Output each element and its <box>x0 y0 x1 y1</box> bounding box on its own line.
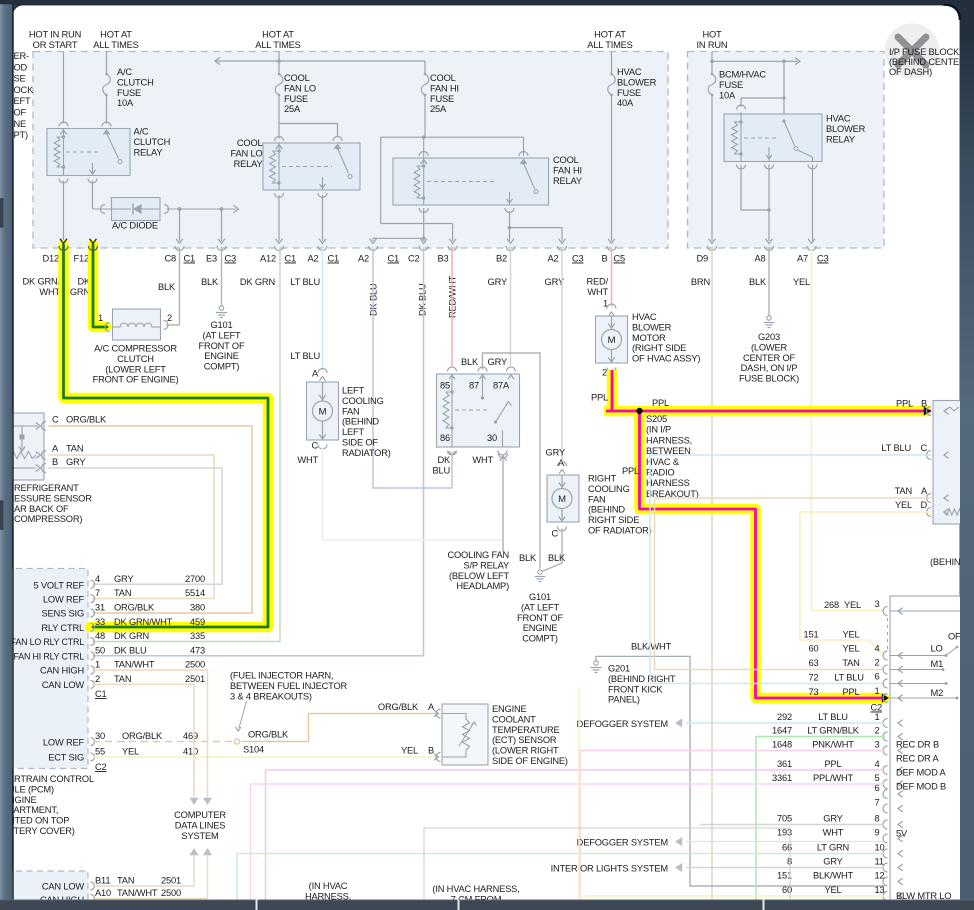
wire B2 GRY to S/P relay 87A <box>510 248 512 366</box>
op HVAC BLOWER RELAY <box>724 114 822 162</box>
svg-text:REC DR A: REC DR A <box>896 754 939 764</box>
svg-text:GRY: GRY <box>823 857 842 867</box>
svg-text:YEL: YEL <box>844 600 861 610</box>
wire lo relay coil to A12 <box>278 195 280 241</box>
svg-text:LT BLU: LT BLU <box>290 277 320 287</box>
ground G201 <box>594 661 598 665</box>
svg-text:REC DR B: REC DR B <box>896 740 939 750</box>
wire data lines to PCM B11 <box>190 848 199 855</box>
PCM dashed box upper <box>0 569 88 769</box>
wire PCM 30 ORG/BLK dashed to S104 <box>93 741 232 743</box>
svg-text:TAN/WHT: TAN/WHT <box>117 888 158 898</box>
svg-text:LT BLU: LT BLU <box>290 351 320 361</box>
node S205 splice <box>636 408 642 414</box>
svg-text:DEFOGGER SYSTEM: DEFOGGER SYSTEM <box>577 838 668 848</box>
wire module C LT BLU to pin 6 <box>650 455 931 684</box>
svg-text:M2: M2 <box>931 688 944 698</box>
svg-text:86: 86 <box>440 433 450 443</box>
svg-text:YEL: YEL <box>895 500 912 510</box>
wire highlighted PPL blower motor to S205 rail <box>607 370 618 411</box>
svg-text:2500: 2500 <box>185 660 205 670</box>
svg-text:LOW REF: LOW REF <box>43 738 85 748</box>
wire A7 YEL to connector pin 3 <box>812 248 885 611</box>
svg-text:ORG/BLK: ORG/BLK <box>248 730 289 740</box>
wire PCM 55 YEL to ECT B <box>93 756 436 758</box>
wire left fan WHT to splice <box>323 447 504 540</box>
svg-text:SENS SIG: SENS SIG <box>42 609 84 619</box>
svg-text:PPL/WHT: PPL/WHT <box>813 773 854 783</box>
svg-text:TAN: TAN <box>66 444 83 454</box>
svg-text:BLK: BLK <box>461 357 479 367</box>
svg-text:2: 2 <box>167 313 172 323</box>
svg-text:LT BLU: LT BLU <box>881 443 911 453</box>
svg-text:60: 60 <box>809 644 819 654</box>
svg-text:GRY: GRY <box>546 448 565 458</box>
svg-text:DK: DK <box>437 455 451 465</box>
svg-text:1: 1 <box>875 712 880 722</box>
svg-text:WHT: WHT <box>823 828 844 838</box>
wire HOT IN RUN OR START feed <box>63 52 65 124</box>
svg-text:B: B <box>428 746 434 756</box>
wire C2 DK BLU to PCM pin 50 <box>93 248 424 656</box>
svg-text:2: 2 <box>602 368 607 378</box>
wire blower fuse to B C5 <box>611 95 613 241</box>
wire relay common to A8 <box>768 165 770 242</box>
pointer fuel injector harness to S104 <box>239 701 247 728</box>
svg-text:RLY CTRL: RLY CTRL <box>41 623 84 633</box>
svg-text:TAN: TAN <box>842 658 859 668</box>
svg-text:C2: C2 <box>95 762 107 772</box>
svg-text:5: 5 <box>875 773 880 783</box>
wire pin11 GRY interior lights <box>686 867 884 869</box>
svg-text:C8: C8 <box>164 254 176 264</box>
right frame bar <box>960 2 974 910</box>
wire fuse to hi relay rail <box>424 95 426 137</box>
svg-text:2501: 2501 <box>185 674 205 684</box>
svg-text:DK GRN: DK GRN <box>114 631 149 641</box>
wire pin13 YEL <box>579 688 884 896</box>
frame overlay left bar <box>0 2 12 910</box>
wire fuse to cool fan lo relay <box>278 95 280 139</box>
svg-text:C3: C3 <box>572 254 584 264</box>
wire pin10 LT GRN <box>237 854 884 900</box>
svg-text:A2: A2 <box>307 254 318 264</box>
svg-text:WHT: WHT <box>297 455 318 465</box>
svg-text:D9: D9 <box>696 254 708 264</box>
wire compressor clutch pin2 to C8 BLK <box>164 321 169 330</box>
wire 87 BLK to G101 left <box>483 353 541 568</box>
wire relay switch to diode <box>92 181 94 210</box>
PCM connector C2 pins <box>91 738 95 746</box>
relay coil A/C clutch <box>63 129 65 176</box>
svg-text:BLK/WHT: BLK/WHT <box>813 871 854 881</box>
svg-text:BLK: BLK <box>519 553 537 563</box>
op COOL FAN LO RELAY <box>263 143 360 190</box>
svg-text:151: 151 <box>804 630 819 640</box>
svg-text:ORG/BLK: ORG/BLK <box>66 415 107 425</box>
relay switch cool fan hi <box>522 161 525 164</box>
frame notch lower <box>0 500 4 530</box>
op REFRIGERANT PRESSURE SENSOR <box>0 413 44 480</box>
box harness region <box>423 828 425 899</box>
svg-text:3: 3 <box>875 599 880 609</box>
svg-text:YEL: YEL <box>122 747 139 757</box>
svg-text:2: 2 <box>875 658 880 668</box>
svg-text:YEL: YEL <box>793 277 810 287</box>
svg-text:RED/WHT: RED/WHT <box>587 277 609 297</box>
wire A2 LT BLU to left cooling fan <box>322 248 324 371</box>
svg-text:E3: E3 <box>206 254 217 264</box>
wire relay contact to A7 <box>812 165 814 242</box>
svg-text:5514: 5514 <box>185 588 205 598</box>
wire pin1 LT BLU defogger <box>686 722 884 724</box>
svg-text:1: 1 <box>98 313 103 323</box>
op A/C COMPRESSOR CLUTCH <box>105 323 110 332</box>
svg-text:4: 4 <box>875 759 880 769</box>
wire junction to E3 <box>221 209 223 241</box>
op HVAC control module upper right <box>933 401 973 525</box>
svg-text:M: M <box>319 407 327 418</box>
svg-text:2501: 2501 <box>161 876 181 886</box>
wire highlighted DK GRN/WHT D12 to PCM pin 33 <box>64 245 269 627</box>
PCM lower connector pins <box>91 882 95 890</box>
svg-text:72: 72 <box>809 673 819 683</box>
svg-text:LO: LO <box>931 644 943 654</box>
svg-text:TAN: TAN <box>895 486 912 496</box>
svg-text:GRY: GRY <box>66 457 85 467</box>
svg-text:33: 33 <box>95 617 105 627</box>
svg-text:ORG/BLK: ORG/BLK <box>114 603 155 613</box>
frame notch upper <box>0 198 4 228</box>
diode A/C DIODE <box>101 205 106 214</box>
svg-text:M: M <box>608 335 616 346</box>
svg-text:12: 12 <box>875 871 885 881</box>
wire HOT AT ALL TIMES to A/C clutch fuse <box>106 52 108 74</box>
svg-text:5 VOLT REF: 5 VOLT REF <box>33 581 84 591</box>
svg-text:TAN: TAN <box>117 876 134 886</box>
svg-text:361: 361 <box>777 759 792 769</box>
svg-text:DK BLU: DK BLU <box>114 645 147 655</box>
svg-text:B2: B2 <box>496 254 507 264</box>
svg-text:C3: C3 <box>817 254 829 264</box>
fuse A/C CLUTCH FUSE 10A <box>103 74 111 95</box>
wire D9 BRN down <box>711 248 713 899</box>
svg-text:HOT IN RUNOR START: HOT IN RUNOR START <box>29 30 81 50</box>
svg-text:48: 48 <box>95 631 105 641</box>
wire fuse to A/C clutch relay <box>106 95 108 124</box>
svg-text:S104: S104 <box>243 745 264 755</box>
relay switch S/P <box>482 374 484 397</box>
fuse HVAC BLOWER FUSE 40A <box>608 74 616 95</box>
unfused branch rail <box>712 60 784 62</box>
svg-text:D: D <box>920 500 927 510</box>
svg-text:C: C <box>920 443 927 453</box>
svg-text:FAN HI RLY CTRL: FAN HI RLY CTRL <box>14 652 85 662</box>
op COOLING FAN S/P RELAY <box>437 374 520 447</box>
I/P fuse block dashed box <box>688 52 885 249</box>
svg-text:A10: A10 <box>95 888 111 898</box>
svg-text:1: 1 <box>95 660 100 670</box>
svg-text:A8: A8 <box>754 254 765 264</box>
svg-text:DEF MOD B: DEF MOD B <box>896 782 946 792</box>
svg-text:ORG/BLK: ORG/BLK <box>122 731 163 741</box>
wire A8 BLK to G203 <box>768 248 770 316</box>
svg-text:268: 268 <box>824 600 839 610</box>
wire pin9 WHT defogger <box>686 841 884 843</box>
svg-text:GRY: GRY <box>823 814 842 824</box>
wire pin2 LT GRN/BLK <box>756 737 884 900</box>
wire B C5 RED/WHT to blower motor <box>611 248 613 307</box>
svg-text:A2: A2 <box>358 254 369 264</box>
svg-text:GRY: GRY <box>114 574 133 584</box>
svg-text:COOLFAN HIRELAY: COOLFAN HIRELAY <box>553 155 582 186</box>
svg-text:C: C <box>52 415 59 425</box>
node S104 splice <box>234 739 239 744</box>
svg-text:30: 30 <box>95 731 105 741</box>
wire hi switch to B2 and A2C3 <box>509 211 511 241</box>
frame overlay top strip <box>0 0 974 4</box>
svg-text:C1: C1 <box>184 254 196 264</box>
wire rail to cool fan hi fuse <box>424 61 426 74</box>
relay coil cool fan lo <box>278 143 280 190</box>
svg-text:B3: B3 <box>437 254 448 264</box>
svg-text:(IN HVACHARNESS,: (IN HVACHARNESS, <box>305 881 351 901</box>
wire HOT AT ALL TIMES rail <box>278 52 280 74</box>
svg-text:LT BLU: LT BLU <box>834 673 864 683</box>
svg-text:8: 8 <box>875 814 880 824</box>
op blower switch module lower right <box>890 596 974 906</box>
svg-text:3: 3 <box>875 740 880 750</box>
relay switch A/C clutch <box>105 131 108 134</box>
node diode-E3 junction <box>220 207 224 211</box>
svg-text:87: 87 <box>469 381 479 391</box>
svg-text:5V: 5V <box>896 829 908 839</box>
svg-text:BLK/WHT: BLK/WHT <box>631 642 672 652</box>
svg-text:LT BLU: LT BLU <box>818 712 848 722</box>
wire HOT IN RUN feed <box>711 52 713 74</box>
fuse BCM/HVAC FUSE 10A <box>708 74 716 95</box>
svg-text:CAN LOW: CAN LOW <box>42 882 85 892</box>
svg-text:YEL: YEL <box>824 885 841 895</box>
svg-text:C: C <box>551 529 558 539</box>
wire hi relay feed rails <box>381 136 524 138</box>
ground G203 <box>767 316 771 320</box>
wire PCM 1 TAN/WHT to data lines <box>93 670 208 797</box>
ground G101 radiator <box>538 570 542 574</box>
op ECT SENSOR <box>442 704 488 765</box>
svg-text:7: 7 <box>875 798 880 808</box>
svg-text:C2: C2 <box>870 703 882 713</box>
close button <box>885 24 940 79</box>
svg-text:A: A <box>312 369 319 379</box>
relay coil cool fan hi <box>423 137 425 205</box>
svg-text:C5: C5 <box>614 254 626 264</box>
svg-text:ORG/BLK: ORG/BLK <box>378 702 419 712</box>
wire rail to hi relay switch <box>523 137 525 156</box>
svg-text:M1: M1 <box>931 659 944 669</box>
PCM connector C1 pins <box>91 580 95 588</box>
svg-text:FAN LO RLY CTRL: FAN LO RLY CTRL <box>11 637 85 647</box>
wire rail to B3 <box>452 224 454 242</box>
svg-text:1647: 1647 <box>772 726 792 736</box>
svg-text:LT GRN: LT GRN <box>817 843 849 853</box>
svg-text:4: 4 <box>875 644 880 654</box>
svg-text:292: 292 <box>777 712 792 722</box>
svg-text:PNK/WHT: PNK/WHT <box>812 740 854 750</box>
svg-text:3361: 3361 <box>772 773 792 783</box>
wire highlighted DK GRN F12 to compressor clutch <box>93 245 106 327</box>
svg-text:1648: 1648 <box>772 740 792 750</box>
svg-text:BLK: BLK <box>158 282 176 292</box>
svg-text:F12: F12 <box>74 254 89 264</box>
svg-text:YEL: YEL <box>401 746 418 756</box>
svg-text:2700: 2700 <box>185 574 205 584</box>
svg-text:A: A <box>52 444 59 454</box>
svg-text:10: 10 <box>875 843 885 853</box>
fuse COOL FAN HI FUSE 25A <box>421 74 429 95</box>
wire pin5 PPL/WHT <box>251 784 885 899</box>
underhood fuse block dashed box <box>33 52 668 249</box>
svg-text:11: 11 <box>875 857 884 867</box>
svg-text:TAN: TAN <box>114 674 131 684</box>
svg-text:335: 335 <box>190 631 205 641</box>
wire B3 RED/WHT to S/P relay 85 <box>451 248 453 366</box>
wire pin8 GRY <box>700 824 884 826</box>
bottom tab bar <box>0 900 974 910</box>
wire relay coil low to A8 rail <box>740 165 742 211</box>
svg-text:TAN: TAN <box>114 588 131 598</box>
relay coil HVAC blower <box>740 114 742 162</box>
svg-text:7: 7 <box>95 588 100 598</box>
svg-text:A/C COMPRESSORCLUTCH(LOWER LEF: A/C COMPRESSORCLUTCH(LOWER LEFTFRONT OF … <box>93 344 179 385</box>
relay switch HVAC blower <box>782 119 785 122</box>
svg-text:B: B <box>52 457 58 467</box>
svg-text:63: 63 <box>809 658 819 668</box>
svg-text:PPL: PPL <box>824 759 841 769</box>
svg-text:6: 6 <box>875 672 880 682</box>
wire PCM 2 TAN to data lines <box>93 684 194 797</box>
wire pin3 PNK/WHT <box>580 751 884 900</box>
svg-text:473: 473 <box>190 645 205 655</box>
svg-text:BLU: BLU <box>432 466 450 476</box>
svg-text:C3: C3 <box>225 254 237 264</box>
svg-text:50: 50 <box>95 645 105 655</box>
svg-text:BRN: BRN <box>691 277 710 287</box>
svg-text:BLK: BLK <box>749 277 767 287</box>
svg-text:DK BLU: DK BLU <box>418 283 428 316</box>
svg-text:INTERIOR LIGHTS SYSTEM: INTERIOR LIGHTS SYSTEM <box>551 864 668 874</box>
svg-text:1: 1 <box>875 686 880 696</box>
wire data lines to PCM A10 <box>203 848 212 855</box>
op HVAC BLOWER MOTOR <box>607 304 616 309</box>
svg-text:A12: A12 <box>260 254 276 264</box>
svg-text:410: 410 <box>183 747 198 757</box>
svg-text:A2: A2 <box>547 254 558 264</box>
svg-text:9: 9 <box>875 828 880 838</box>
relay switch cool fan lo <box>336 146 339 149</box>
svg-text:DK GRN/WHT: DK GRN/WHT <box>114 617 173 627</box>
svg-text:C1: C1 <box>95 689 107 699</box>
svg-text:YEL: YEL <box>842 630 859 640</box>
svg-text:4: 4 <box>95 574 100 584</box>
svg-text:PPL: PPL <box>652 398 669 408</box>
svg-text:DEF MOD A: DEF MOD A <box>896 768 946 778</box>
fuse COOL FAN LO FUSE 25A <box>275 74 283 95</box>
svg-text:85: 85 <box>440 381 450 391</box>
frame overlay top-right corner wedge <box>942 0 974 40</box>
frame overlay right bar <box>960 0 974 910</box>
wire A2 C3 GRY to right cooling fan <box>561 248 563 464</box>
svg-text:D12: D12 <box>42 254 59 264</box>
connector C2 lower pins <box>883 719 888 728</box>
wire sensor B GRY to PCM 4 <box>49 468 222 584</box>
svg-text:B: B <box>601 254 607 264</box>
wire BCM fuse to D9 <box>711 95 713 241</box>
svg-text:C1: C1 <box>328 254 340 264</box>
svg-text:A7: A7 <box>797 254 808 264</box>
wire right fan BLK to G101 <box>543 529 562 571</box>
wire module D YEL to pin 4 <box>800 512 931 656</box>
wire S104 ORG/BLK to ECT A <box>242 714 437 742</box>
wire diode output <box>167 208 236 210</box>
svg-text:C1: C1 <box>285 254 297 264</box>
wire pin4 PPL <box>266 770 885 899</box>
svg-text:380: 380 <box>190 603 205 613</box>
svg-text:M: M <box>558 494 566 505</box>
svg-text:A: A <box>921 486 928 496</box>
svg-text:13: 13 <box>875 885 885 895</box>
wire E3 BLK to G101 <box>221 248 223 306</box>
svg-text:PPL: PPL <box>896 399 913 409</box>
op COOL FAN HI RELAY <box>393 158 549 205</box>
wire BLK/WHT G201 to pin 12 <box>596 656 884 886</box>
svg-text:73: 73 <box>809 687 819 697</box>
svg-text:DK GRN: DK GRN <box>240 277 275 287</box>
wire HOT AT ALL TIMES to HVAC blower fuse <box>611 52 613 74</box>
svg-text:PPL: PPL <box>622 466 639 476</box>
svg-text:PPL: PPL <box>591 393 608 403</box>
svg-text:A/C DIODE: A/C DIODE <box>112 221 158 231</box>
svg-text:LOW REF: LOW REF <box>43 595 85 605</box>
svg-text:BLK: BLK <box>548 553 566 563</box>
wire S/P 86 DK BLU <box>424 453 453 488</box>
op A/C CLUTCH RELAY <box>47 129 130 176</box>
wire module A TAN to pin 2 <box>655 498 932 670</box>
svg-text:LT GRN/BLK: LT GRN/BLK <box>807 726 860 736</box>
svg-text:459: 459 <box>190 617 205 627</box>
svg-text:GRY: GRY <box>488 277 507 287</box>
svg-text:B11: B11 <box>95 876 110 886</box>
svg-text:2500: 2500 <box>161 888 181 898</box>
wire S/P 30 off-page <box>502 457 504 552</box>
wire hi coil to C2 and A2 <box>423 208 425 241</box>
wire junction to C8 <box>179 209 181 241</box>
wire sensor C ORG/BLK to PCM 31 <box>49 426 252 613</box>
svg-text:COMPUTERDATA LINESSYSTEM: COMPUTERDATA LINESSYSTEM <box>174 810 226 841</box>
svg-text:2: 2 <box>95 674 100 684</box>
svg-text:30: 30 <box>487 433 497 443</box>
ground G101 engine compt <box>219 306 223 310</box>
svg-text:CAN LOW: CAN LOW <box>42 680 85 690</box>
svg-text:B: B <box>921 399 927 409</box>
svg-text:BLK: BLK <box>201 277 219 287</box>
svg-text:31: 31 <box>95 603 105 613</box>
wire relay to D12 <box>63 181 65 242</box>
svg-text:705: 705 <box>777 814 792 824</box>
svg-text:2: 2 <box>875 726 880 736</box>
svg-text:TAN/WHT: TAN/WHT <box>114 660 155 670</box>
svg-text:DEFOGGER SYSTEM: DEFOGGER SYSTEM <box>577 719 668 729</box>
